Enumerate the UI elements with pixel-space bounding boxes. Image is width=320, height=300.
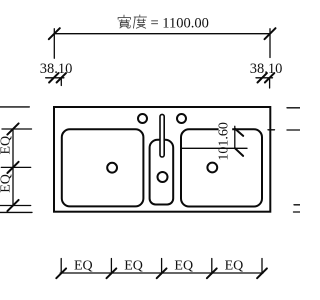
svg-text:EQ: EQ [0,174,14,193]
bottom EQ extension stub 4 [211,259,213,274]
bottom EQ tick 4 [207,268,217,278]
bottom EQ extension stub 1 [60,259,62,274]
bottom EQ extension stub 5 [261,259,263,274]
bottom EQ tick 2 [107,268,117,278]
right 38.10 lower extension stub [269,78,271,88]
right basin [181,129,262,206]
101.60 bottom tick [235,148,243,156]
left EQ tick top [7,123,18,134]
right 38.10 dimension line [256,77,273,79]
left extension line of width dimension [53,29,55,58]
glyph 度 [133,15,146,29]
left EQ: middle extension stub [1,166,30,168]
svg-text:= 1100.00: = 1100.00 [151,16,209,32]
center divider [150,140,174,205]
svg-text:EQ: EQ [225,258,244,273]
right edge: basin bottom extension dash [294,204,300,206]
101.60 top tick [235,129,243,136]
left EQ: basin top extension stub [2,128,32,130]
sink counter outline [54,107,270,212]
left 38.10 lower extension stub [60,78,62,86]
right edge: basin top extension dash [287,129,300,131]
left tick of width dimension [49,28,60,39]
svg-text:EQ: EQ [0,136,14,155]
left 38.10 dimension line [46,77,64,79]
bottom EQ tick 5 [257,268,267,278]
left EQ: sink top edge extension [0,106,29,108]
left 38.10 tick 2 [57,73,66,82]
glyph 寬 [118,15,131,28]
101.60 text background gap [219,121,233,147]
svg-text:EQ: EQ [74,258,93,273]
svg-text:101.60: 101.60 [217,122,232,161]
bottom EQ tick 3 [157,268,167,278]
divider hole [158,172,168,182]
svg-text:EQ: EQ [124,258,143,273]
right faucet hole [177,114,186,123]
left EQ tick middle [7,162,18,173]
bottom EQ tick 1 [56,268,66,278]
left 38.10 tick 1 [49,73,58,82]
right 38.10 tick 2 [265,73,274,82]
svg-text:EQ: EQ [174,258,193,273]
bottom EQ dimension line [60,272,263,274]
101.60 vertical dimension line [234,126,236,148]
left basin [62,129,144,206]
bottom EQ extension stub 3 [161,259,163,274]
left EQ vertical dimension line [12,129,14,206]
overall width dimension line 1100.00 [54,33,270,35]
left EQ: sink bottom edge extension [0,211,32,213]
right extension line of width dimension [269,29,271,58]
dimension text 寬度 = 1100.00 : CJK glyphs drawn as vector strokes [118,15,147,29]
right edge: sink top extension dash [287,107,300,109]
bottom EQ extension stub 2 [110,259,112,274]
right edge: sink bottom extension dash [294,211,301,213]
left EQ tick bottom [7,200,18,211]
left EQ: basin bottom extension stub [0,205,31,207]
right 38.10 tick 1 [258,73,267,82]
faucet lever bar [160,114,164,157]
101.60 lower reference line [181,147,247,149]
right edge: basin top extension stub crossing sink edge [268,129,275,131]
right tick of width dimension [265,28,276,39]
right drain [207,163,217,173]
left faucet hole [138,114,147,123]
left drain [107,163,117,173]
